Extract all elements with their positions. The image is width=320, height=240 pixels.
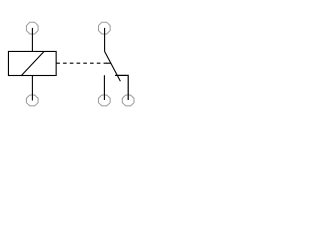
mechanical link (dashed) xyxy=(56,62,110,64)
contact lead (NO throw, bent) xyxy=(115,75,128,100)
contact lead (second throw stub) xyxy=(103,75,105,100)
terminal pad P$5 (contact throw, bottom right) xyxy=(122,95,134,106)
terminal pad P$1 (coil top) xyxy=(26,22,38,34)
wire (coil bottom pin) xyxy=(31,76,33,101)
switch blade S1 xyxy=(105,52,121,82)
wire (switch common pin) xyxy=(104,28,106,52)
background xyxy=(0,0,140,128)
terminal pad P$4 (contact throw, bottom middle) xyxy=(98,95,110,106)
wire (coil top pin) xyxy=(31,28,33,52)
coil diagonal stroke xyxy=(21,52,44,76)
terminal pad P$2 (coil bottom) xyxy=(26,95,38,106)
terminal pad P$3 (switch common, top right) xyxy=(98,22,110,34)
relay coil K1 (box) xyxy=(8,51,56,75)
mechanical link final dash (touches blade) xyxy=(107,62,111,64)
